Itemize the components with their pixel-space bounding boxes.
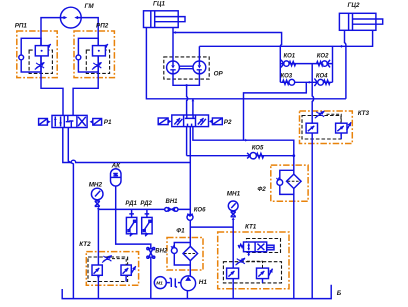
svg-text:КТ3: КТ3: [358, 110, 370, 117]
svg-text:ВН1: ВН1: [166, 199, 179, 205]
svg-text:Н1: Н1: [199, 279, 208, 286]
svg-text:РП1: РП1: [15, 23, 28, 30]
svg-text:КО2: КО2: [317, 53, 329, 59]
svg-text:КО5: КО5: [252, 145, 264, 151]
svg-text:ВН2: ВН2: [155, 249, 168, 255]
svg-text:Р2: Р2: [224, 119, 232, 126]
svg-text:МН2: МН2: [89, 181, 103, 188]
svg-text:Р1: Р1: [104, 119, 112, 126]
svg-text:РД1: РД1: [125, 201, 137, 207]
svg-text:КО6: КО6: [194, 207, 206, 213]
svg-text:МН1: МН1: [227, 190, 241, 197]
svg-text:КО4: КО4: [316, 73, 328, 79]
svg-text:КО1: КО1: [284, 53, 296, 59]
svg-text:ГМ: ГМ: [85, 3, 95, 10]
svg-text:КО3: КО3: [281, 73, 293, 79]
svg-text:РП2: РП2: [96, 23, 109, 30]
svg-text:Б: Б: [337, 290, 342, 297]
svg-text:РД2: РД2: [140, 201, 152, 207]
svg-text:ГЦ1: ГЦ1: [153, 0, 165, 7]
svg-text:АК: АК: [111, 163, 122, 170]
svg-text:М1: М1: [156, 280, 163, 286]
svg-text:Ф1: Ф1: [176, 227, 185, 234]
svg-text:ОР: ОР: [214, 70, 224, 77]
svg-text:КТ2: КТ2: [79, 241, 91, 248]
svg-text:ГЦ2: ГЦ2: [348, 2, 360, 9]
svg-text:Ф2: Ф2: [257, 186, 266, 193]
svg-text:КТ1: КТ1: [245, 224, 257, 231]
